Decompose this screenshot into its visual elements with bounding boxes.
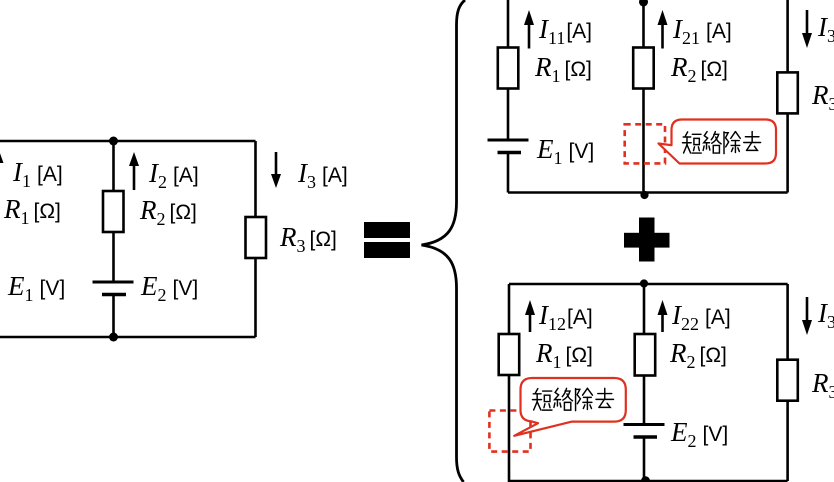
svg-text:R2[Ω]: R2[Ω] bbox=[670, 52, 728, 86]
svg-text:I2[A]: I2[A] bbox=[148, 158, 199, 192]
svg-text:R3: R3 bbox=[811, 80, 834, 114]
svg-text:I31: I31 bbox=[817, 12, 834, 46]
svg-text:I32: I32 bbox=[817, 298, 834, 332]
svg-text:R1[Ω]: R1[Ω] bbox=[534, 52, 592, 86]
svg-text:I12[A]: I12[A] bbox=[538, 300, 593, 334]
svg-text:E1[V]: E1[V] bbox=[7, 271, 65, 305]
svg-text:I11[A]: I11[A] bbox=[538, 14, 592, 48]
svg-text:R2[Ω]: R2[Ω] bbox=[669, 338, 727, 372]
svg-text:E2[V]: E2[V] bbox=[140, 271, 198, 305]
svg-text:I3[A]: I3[A] bbox=[297, 158, 348, 192]
svg-text:R1[Ω]: R1[Ω] bbox=[3, 194, 61, 228]
svg-text:I22[A]: I22[A] bbox=[671, 300, 731, 334]
svg-text:R2[Ω]: R2[Ω] bbox=[139, 195, 197, 229]
svg-text:I21[A]: I21[A] bbox=[672, 14, 732, 48]
svg-text:R3[Ω]: R3[Ω] bbox=[279, 222, 337, 256]
svg-text:I1[A]: I1[A] bbox=[12, 157, 63, 191]
svg-text:R3: R3 bbox=[811, 368, 834, 402]
svg-text:E1[V]: E1[V] bbox=[536, 134, 594, 168]
svg-text:E2[V]: E2[V] bbox=[670, 417, 728, 451]
svg-text:R1[Ω]: R1[Ω] bbox=[535, 338, 593, 372]
